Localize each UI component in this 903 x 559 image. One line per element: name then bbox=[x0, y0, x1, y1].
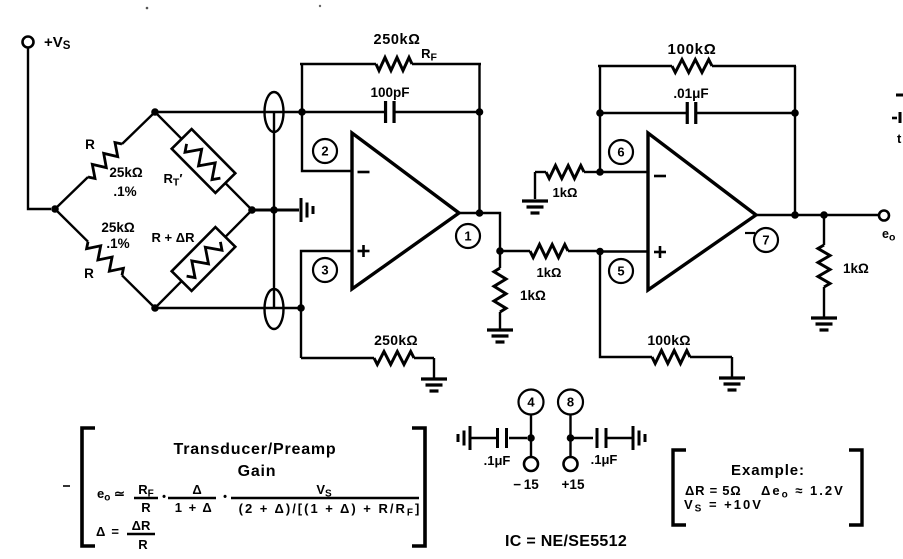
pin 1 bbox=[456, 224, 480, 248]
svg-text:.1%: .1% bbox=[106, 236, 129, 251]
label .1uF (pin8) bbox=[591, 452, 618, 467]
wire pin8 to +15 terminal bbox=[569, 438, 571, 457]
svg-text:Δ: Δ bbox=[192, 482, 201, 497]
label Gain bbox=[238, 463, 277, 480]
label IC = NE/SE5512 bbox=[505, 533, 627, 550]
svg-text:100kΩ: 100kΩ bbox=[647, 332, 690, 348]
dash at pin 7 bbox=[745, 232, 755, 234]
node shield junction bbox=[270, 206, 278, 214]
label +15 bbox=[562, 477, 585, 492]
label 1k ohm (U1 output) bbox=[520, 288, 546, 303]
svg-text:100pF: 100pF bbox=[370, 85, 409, 100]
wire 100pF left bbox=[302, 111, 385, 113]
svg-text:1kΩ: 1kΩ bbox=[520, 288, 546, 303]
formula delta bbox=[96, 518, 155, 552]
label dR = 5 ohm bbox=[685, 483, 741, 498]
wire feedback right leg bbox=[478, 64, 480, 213]
label Transducer/Preamp bbox=[174, 441, 337, 458]
op-amp U2 bbox=[648, 133, 756, 290]
op-amp U1 bbox=[352, 133, 459, 289]
wire feedback2 left leg bbox=[599, 66, 601, 172]
node output junction bbox=[496, 247, 504, 255]
svg-text:1kΩ: 1kΩ bbox=[843, 261, 869, 276]
wire bridge top node to pin2 node bbox=[155, 111, 302, 113]
wire pin8 down bbox=[569, 415, 571, 439]
svg-text:ΔR = 5Ω: ΔR = 5Ω bbox=[685, 483, 741, 498]
svg-text:t: t bbox=[897, 131, 902, 146]
label 100k ohm (feedback) bbox=[668, 41, 717, 58]
resistor R 25k top-left bridge arm bbox=[55, 112, 155, 209]
pin 8 bbox=[558, 390, 583, 415]
svg-text:1kΩ: 1kΩ bbox=[553, 185, 578, 200]
node output 1k junction bbox=[820, 211, 828, 219]
wire 100pF right bbox=[395, 111, 480, 113]
chassis ground (sideways) at bridge right bbox=[301, 198, 313, 222]
label 1k ohm (pin6) bbox=[553, 185, 578, 200]
wire pin8 cap right bbox=[574, 437, 593, 439]
svg-text:eo ≃: eo ≃ bbox=[97, 486, 125, 504]
resistor R 25k bottom-left bridge arm bbox=[55, 209, 155, 308]
svg-text:ΔR: ΔR bbox=[132, 518, 151, 533]
wire shield vertical bbox=[273, 112, 275, 309]
pin 2 bbox=[313, 139, 337, 163]
wire to pin 2 bbox=[302, 112, 352, 171]
node .01uF left bbox=[596, 109, 604, 117]
svg-text:Δeo ≈ 1.2V: Δeo ≈ 1.2V bbox=[761, 483, 845, 501]
svg-text:5: 5 bbox=[617, 264, 624, 279]
label Example: bbox=[731, 462, 805, 479]
shield ellipse top bbox=[265, 92, 284, 132]
gain formula bracket left bbox=[82, 428, 95, 546]
svg-text:.1μF: .1μF bbox=[484, 453, 511, 468]
svg-text:R + ΔR: R + ΔR bbox=[152, 230, 196, 245]
wire pin8 to chassis bbox=[606, 437, 632, 439]
svg-text:7: 7 bbox=[762, 233, 769, 248]
speck top bbox=[146, 7, 149, 10]
node bridge top bbox=[151, 108, 159, 116]
wire pin4 to -15 terminal bbox=[530, 438, 532, 457]
example bracket right bbox=[849, 450, 862, 525]
svg-text:R: R bbox=[141, 500, 151, 515]
wire pin4 down bbox=[530, 415, 532, 439]
node .01uF right bbox=[791, 109, 799, 117]
shield ellipse bottom bbox=[265, 289, 284, 329]
label -15 bbox=[513, 477, 539, 492]
wire feedback2 right leg bbox=[794, 66, 796, 215]
pin 4 bbox=[519, 390, 544, 415]
svg-text:3: 3 bbox=[321, 263, 328, 278]
label 100pF bbox=[370, 85, 409, 100]
svg-text:8: 8 bbox=[567, 395, 574, 410]
terminal +15 bbox=[564, 457, 578, 471]
label R (bottom-left) bbox=[84, 266, 94, 281]
ground below 1k U1 output bbox=[487, 330, 513, 342]
pin 6 bbox=[609, 140, 633, 164]
wire .01uF left bbox=[600, 112, 686, 114]
resistor 100k feedback bbox=[598, 60, 796, 73]
wire bridge bottom node to pin3 node bbox=[155, 307, 301, 309]
formula e_o bbox=[97, 482, 421, 519]
svg-text:2: 2 bbox=[321, 144, 328, 159]
node pin6 junction bbox=[596, 168, 604, 176]
svg-text:100kΩ: 100kΩ bbox=[668, 41, 717, 58]
terminal +Vs bbox=[23, 34, 71, 52]
node pin5 junction bbox=[596, 248, 604, 256]
wire U2 output bbox=[756, 214, 879, 216]
chassis ground (sideways) pin4 bbox=[458, 426, 470, 450]
svg-text:R: R bbox=[84, 266, 94, 281]
cut-off text fragment top bbox=[896, 94, 903, 97]
svg-text:25kΩ: 25kΩ bbox=[101, 220, 135, 235]
label .1uF (pin4) bbox=[484, 453, 511, 468]
node bridge bottom bbox=[151, 304, 159, 312]
label RT' bbox=[164, 171, 183, 189]
svg-text:R: R bbox=[85, 137, 95, 152]
node bridge left bbox=[51, 205, 59, 213]
svg-text:R: R bbox=[138, 537, 148, 552]
resistor 1k at output bbox=[818, 215, 830, 317]
wire pin5 node down bbox=[600, 252, 652, 358]
capacitor .01uF bbox=[687, 102, 696, 124]
svg-text:IC = NE/SE5512: IC = NE/SE5512 bbox=[505, 533, 627, 550]
terminal e_o bbox=[879, 211, 889, 221]
label .01uF bbox=[673, 86, 708, 101]
node 100pF right bbox=[476, 108, 484, 116]
ground at 250k lower bbox=[421, 379, 447, 391]
node pin8 junction bbox=[567, 434, 575, 442]
wire to pin 6 bbox=[600, 171, 648, 173]
svg-text:1: 1 bbox=[464, 229, 471, 244]
wire to pin 5 bbox=[600, 250, 648, 252]
ground at 100k lower bbox=[719, 378, 745, 390]
resistor RF 250k bbox=[300, 58, 481, 71]
node pin2/feedback bbox=[298, 108, 306, 116]
svg-text:•: • bbox=[223, 491, 227, 503]
speck formula left bbox=[63, 485, 70, 487]
node feedback2 output bbox=[791, 211, 799, 219]
svg-text:1 + Δ: 1 + Δ bbox=[175, 500, 213, 515]
pin 5 bbox=[609, 259, 633, 283]
wire bridge right node to ground bbox=[252, 209, 299, 212]
capacitor 100pF bbox=[386, 101, 395, 123]
svg-text:.01μF: .01μF bbox=[673, 86, 708, 101]
svg-text:Δ =: Δ = bbox=[96, 524, 120, 539]
resistor R+dR (boxed) bottom-right bridge arm bbox=[155, 210, 252, 308]
cut-off text fragment middle bbox=[892, 112, 900, 123]
svg-text:25kΩ: 25kΩ bbox=[109, 165, 143, 180]
gain formula bracket right bbox=[412, 428, 425, 546]
svg-text:Gain: Gain bbox=[238, 463, 277, 480]
node U1 output feedback bbox=[476, 209, 484, 217]
pin 3 bbox=[313, 258, 337, 282]
svg-text:Transducer/Preamp: Transducer/Preamp bbox=[174, 441, 337, 458]
resistor 1k at pin 6 bbox=[535, 166, 600, 200]
wire pin4 cap left bbox=[509, 437, 527, 439]
wire feedback top left leg bbox=[301, 64, 303, 113]
capacitor .1uF (pin8) bbox=[597, 428, 606, 448]
svg-text:(2 + Δ)/[(1 + Δ) + R/RF]: (2 + Δ)/[(1 + Δ) + R/RF] bbox=[239, 501, 422, 519]
resistor 1k at U1 output bbox=[494, 251, 506, 329]
svg-text:+15: +15 bbox=[562, 477, 585, 492]
ground at output 1k bbox=[811, 318, 837, 330]
label R + dR bbox=[152, 230, 196, 245]
resistor 250k lower bbox=[301, 352, 434, 379]
label 250k ohm (RF) bbox=[374, 32, 421, 48]
svg-text:Example:: Example: bbox=[731, 462, 805, 479]
node pin3 shield wire bbox=[297, 304, 305, 312]
chassis ground (sideways) pin8 bbox=[633, 426, 645, 450]
label RF bbox=[421, 46, 437, 64]
svg-text:250kΩ: 250kΩ bbox=[374, 32, 421, 48]
svg-text:1kΩ: 1kΩ bbox=[537, 265, 562, 280]
wire .01uF right bbox=[696, 112, 795, 114]
label R (top-left) bbox=[85, 137, 95, 152]
svg-text:− 15: − 15 bbox=[513, 477, 539, 492]
cut-off text fragment bottom bbox=[897, 131, 902, 146]
terminal -15 bbox=[524, 457, 538, 471]
svg-text:250kΩ: 250kΩ bbox=[374, 332, 418, 348]
speck top2 bbox=[319, 5, 321, 7]
label 25k ohm .1% (bottom) bbox=[101, 220, 135, 251]
label de_o = 1.2V bbox=[761, 483, 845, 501]
svg-text:•: • bbox=[162, 491, 166, 503]
node bridge right bbox=[248, 206, 256, 214]
label 250k ohm (lower) bbox=[374, 332, 418, 348]
wire pin4 to chassis bbox=[471, 437, 498, 439]
label Vs = +10V bbox=[684, 497, 763, 515]
svg-text:6: 6 bbox=[617, 145, 624, 160]
ground at pin6 1k bbox=[522, 201, 548, 213]
resistor 100k lower bbox=[652, 351, 732, 378]
wire U1 output bbox=[459, 213, 500, 251]
svg-text:.1μF: .1μF bbox=[591, 452, 618, 467]
label 1k ohm (output) bbox=[843, 261, 869, 276]
node pin4 junction bbox=[527, 434, 535, 442]
svg-text:4: 4 bbox=[527, 395, 535, 410]
wire to pin 3 bbox=[301, 251, 352, 358]
label 25k ohm .1% (top) bbox=[109, 165, 143, 199]
svg-text:.1%: .1% bbox=[113, 184, 136, 199]
label e_o bbox=[882, 227, 895, 244]
label 1k ohm (series) bbox=[537, 265, 562, 280]
wire +Vs to bridge left node bbox=[28, 48, 51, 210]
label 100k ohm (lower) bbox=[647, 332, 690, 348]
example bracket left bbox=[673, 450, 686, 525]
capacitor .1uF (pin4) bbox=[498, 428, 507, 448]
pin 7 bbox=[754, 228, 778, 252]
resistor 1k series bbox=[500, 245, 600, 258]
resistor RT' (boxed) top-right bridge arm bbox=[155, 112, 252, 210]
